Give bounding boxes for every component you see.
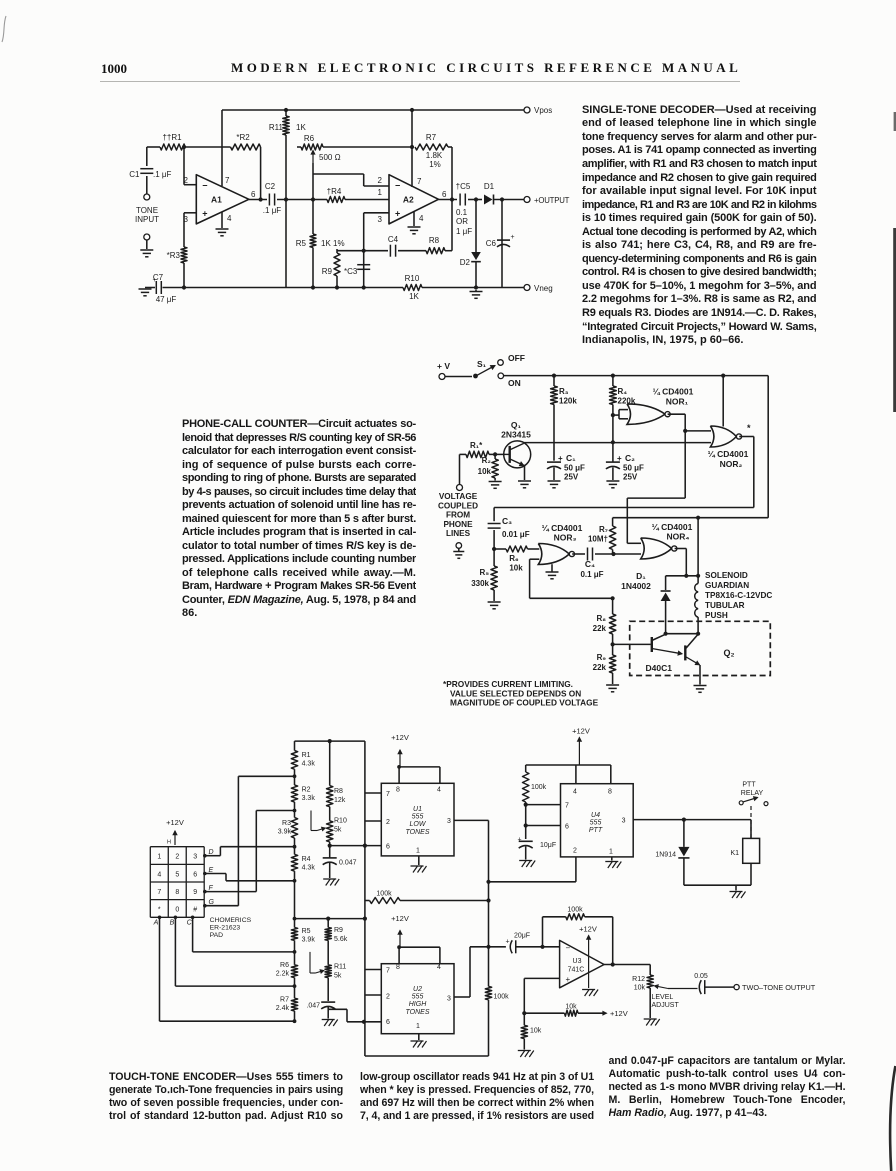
svg-text:R5: R5 xyxy=(296,239,307,248)
svg-text:+: + xyxy=(395,209,400,219)
svg-text:OFF: OFF xyxy=(508,353,525,363)
svg-text:R2: R2 xyxy=(302,787,311,794)
svg-text:MAGNITUDE OF COUPLED VOLTAGE: MAGNITUDE OF COUPLED VOLTAGE xyxy=(450,698,599,708)
svg-text:4.3k: 4.3k xyxy=(302,865,316,872)
svg-text:RELAY: RELAY xyxy=(741,790,764,797)
svg-text:GUARDIAN: GUARDIAN xyxy=(705,581,749,590)
svg-text:1.8K: 1.8K xyxy=(426,151,443,160)
svg-text:R3: R3 xyxy=(282,820,291,827)
svg-text:*R2: *R2 xyxy=(236,133,250,142)
svg-text:C₃: C₃ xyxy=(502,516,512,526)
svg-text:0.05: 0.05 xyxy=(694,973,708,980)
svg-text:R7: R7 xyxy=(426,133,437,142)
svg-text:2: 2 xyxy=(175,854,179,861)
svg-text:R1: R1 xyxy=(302,752,311,759)
svg-text:5k: 5k xyxy=(334,827,342,834)
svg-text:555: 555 xyxy=(412,814,424,821)
svg-text:22k: 22k xyxy=(593,663,607,672)
svg-text:R₈: R₈ xyxy=(596,614,606,623)
svg-text:A2: A2 xyxy=(403,194,414,204)
svg-text:R12: R12 xyxy=(632,976,645,983)
svg-text:R8: R8 xyxy=(334,788,343,795)
svg-text:C2: C2 xyxy=(265,182,276,191)
svg-text:10M†: 10M† xyxy=(588,535,608,544)
svg-text:††R1: ††R1 xyxy=(162,133,182,142)
svg-text:HIGH: HIGH xyxy=(409,1001,427,1008)
svg-text:+: + xyxy=(153,277,157,284)
svg-text:†C5: †C5 xyxy=(456,182,471,191)
svg-text:A1: A1 xyxy=(211,194,222,204)
svg-text:1N4002: 1N4002 xyxy=(621,581,651,591)
svg-text:U4: U4 xyxy=(591,812,600,819)
svg-text:3: 3 xyxy=(447,996,451,1003)
svg-text:D2: D2 xyxy=(460,258,471,267)
svg-text:.047: .047 xyxy=(306,1003,320,1010)
svg-text:Q₁: Q₁ xyxy=(511,420,522,430)
svg-text:2N3415: 2N3415 xyxy=(501,430,531,440)
svg-text:7: 7 xyxy=(157,889,161,896)
svg-text:C₄: C₄ xyxy=(585,559,595,569)
svg-text:R₄: R₄ xyxy=(618,387,628,396)
svg-text:U1: U1 xyxy=(413,806,422,813)
svg-text:R7: R7 xyxy=(280,997,289,1004)
svg-text:10k: 10k xyxy=(634,985,646,992)
svg-text:+12V: +12V xyxy=(391,733,409,742)
svg-text:LOW: LOW xyxy=(410,821,427,828)
svg-text:*: * xyxy=(747,423,751,433)
svg-text:U3: U3 xyxy=(573,958,582,965)
svg-text:−: − xyxy=(566,944,571,953)
svg-text:1: 1 xyxy=(416,1023,420,1030)
svg-text:2.2k: 2.2k xyxy=(276,971,290,978)
svg-text:NOR₄: NOR₄ xyxy=(667,532,690,542)
svg-text:Q₂: Q₂ xyxy=(724,648,735,658)
svg-text:+: + xyxy=(506,939,510,946)
svg-text:2.4k: 2.4k xyxy=(276,1005,290,1012)
svg-text:+: + xyxy=(202,209,207,219)
svg-text:4: 4 xyxy=(573,789,577,796)
svg-text:R5: R5 xyxy=(302,928,311,935)
svg-text:C₁: C₁ xyxy=(566,453,576,463)
svg-text:100k: 100k xyxy=(376,891,392,898)
svg-text:0.047: 0.047 xyxy=(339,860,357,867)
svg-text:100k: 100k xyxy=(567,907,583,914)
svg-text:1 μF: 1 μF xyxy=(456,227,472,236)
svg-text:.1 μF: .1 μF xyxy=(263,206,282,215)
svg-text:3: 3 xyxy=(622,818,626,825)
svg-text:741C: 741C xyxy=(568,967,585,974)
svg-text:D₁: D₁ xyxy=(636,571,646,581)
svg-text:+12V: +12V xyxy=(579,925,597,934)
svg-text:CHOMERICS: CHOMERICS xyxy=(210,917,252,924)
svg-text:555: 555 xyxy=(412,994,424,1001)
svg-text:R₂: R₂ xyxy=(482,456,492,465)
svg-text:R10: R10 xyxy=(405,274,420,283)
svg-text:R11: R11 xyxy=(269,123,284,132)
svg-text:R6: R6 xyxy=(304,134,315,143)
svg-text:6: 6 xyxy=(386,1019,390,1026)
svg-text:4: 4 xyxy=(419,214,424,223)
svg-text:R₉: R₉ xyxy=(597,653,607,662)
svg-text:50 μF: 50 μF xyxy=(564,464,585,473)
svg-text:R₆: R₆ xyxy=(509,554,519,563)
svg-text:PAD: PAD xyxy=(210,932,224,939)
svg-text:+: + xyxy=(617,454,622,463)
svg-text:R₁*: R₁* xyxy=(470,441,483,450)
svg-text:1K: 1K xyxy=(409,292,419,301)
svg-text:10μF: 10μF xyxy=(540,842,556,849)
svg-text:1: 1 xyxy=(609,849,613,856)
svg-text:†R4: †R4 xyxy=(327,187,342,196)
svg-text:+OUTPUT: +OUTPUT xyxy=(534,196,570,205)
svg-text:FROM: FROM xyxy=(446,511,470,520)
svg-text:R11: R11 xyxy=(334,964,346,971)
svg-text:25V: 25V xyxy=(623,473,638,482)
svg-text:5k: 5k xyxy=(334,973,342,980)
svg-text:PUSH: PUSH xyxy=(705,611,728,620)
svg-text:4.3k: 4.3k xyxy=(302,761,316,768)
svg-text:+ V: + V xyxy=(437,361,450,371)
svg-text:8: 8 xyxy=(175,889,179,896)
svg-text:+12V: +12V xyxy=(166,818,184,827)
svg-text:K1: K1 xyxy=(730,850,739,857)
svg-text:¼ CD4001: ¼ CD4001 xyxy=(652,522,693,532)
svg-text:R₇: R₇ xyxy=(599,525,608,534)
svg-text:−: − xyxy=(202,180,207,190)
svg-text:¼ CD4001: ¼ CD4001 xyxy=(708,449,749,459)
svg-text:4: 4 xyxy=(437,964,441,971)
svg-text:NOR₂: NOR₂ xyxy=(720,459,743,469)
svg-text:1%: 1% xyxy=(429,160,441,169)
svg-text:1K: 1K xyxy=(296,123,306,132)
svg-text:10k: 10k xyxy=(478,467,492,476)
svg-text:555: 555 xyxy=(590,820,602,827)
svg-text:330k: 330k xyxy=(471,579,489,588)
svg-text:−: − xyxy=(395,180,400,190)
svg-text:TONES: TONES xyxy=(406,1009,430,1016)
svg-text:R6: R6 xyxy=(280,962,289,969)
svg-text:20μF: 20μF xyxy=(514,933,530,940)
svg-text:S₁: S₁ xyxy=(477,359,487,369)
svg-text:3.9k: 3.9k xyxy=(302,937,316,944)
svg-text:R9: R9 xyxy=(334,927,343,934)
svg-text:7: 7 xyxy=(225,176,230,185)
svg-text:VOLTAGE: VOLTAGE xyxy=(439,492,478,501)
svg-text:NOR₁: NOR₁ xyxy=(666,397,689,407)
svg-text:2: 2 xyxy=(386,994,390,1001)
svg-text:R₅: R₅ xyxy=(480,568,490,577)
svg-text:1: 1 xyxy=(378,188,383,197)
svg-text:+12V: +12V xyxy=(391,914,409,923)
svg-text:0.01 μF: 0.01 μF xyxy=(502,530,530,539)
svg-text:4: 4 xyxy=(227,214,232,223)
svg-text:Vpos: Vpos xyxy=(534,106,552,115)
svg-text:47 μF: 47 μF xyxy=(156,295,177,304)
svg-text:7: 7 xyxy=(565,803,569,810)
svg-text:TWO–TONE OUTPUT: TWO–TONE OUTPUT xyxy=(742,983,816,992)
svg-text:OR: OR xyxy=(456,217,468,226)
svg-text:7: 7 xyxy=(386,968,390,975)
svg-text:ON: ON xyxy=(508,378,521,388)
svg-text:*: * xyxy=(158,907,161,914)
svg-text:C1: C1 xyxy=(129,170,140,179)
svg-text:2: 2 xyxy=(378,176,383,185)
svg-text:+: + xyxy=(518,837,522,844)
svg-text:PTT: PTT xyxy=(742,782,756,789)
svg-text:#: # xyxy=(193,907,197,914)
svg-text:R10: R10 xyxy=(334,818,347,825)
svg-text:TUBULAR: TUBULAR xyxy=(705,601,745,610)
svg-text:PTT: PTT xyxy=(589,827,603,834)
svg-text:COUPLED: COUPLED xyxy=(438,501,478,510)
svg-text:+: + xyxy=(566,975,571,984)
svg-text:ER-21623: ER-21623 xyxy=(210,925,241,932)
svg-text:LINES: LINES xyxy=(446,529,471,538)
svg-text:3: 3 xyxy=(193,854,197,861)
svg-text:1: 1 xyxy=(416,848,420,855)
svg-text:0.1: 0.1 xyxy=(456,208,468,217)
svg-text:+: + xyxy=(511,234,515,241)
svg-text:¼ CD4001: ¼ CD4001 xyxy=(653,387,694,397)
svg-text:Vneg: Vneg xyxy=(534,284,553,293)
svg-text:D40C1: D40C1 xyxy=(646,663,673,673)
svg-text:*C3: *C3 xyxy=(344,267,358,276)
svg-text:100k: 100k xyxy=(494,994,510,1001)
svg-text:5.6k: 5.6k xyxy=(334,936,348,943)
svg-text:6: 6 xyxy=(386,844,390,851)
svg-text:12k: 12k xyxy=(334,797,346,804)
svg-text:6: 6 xyxy=(565,824,569,831)
svg-text:+12V: +12V xyxy=(572,727,590,736)
svg-text:3: 3 xyxy=(447,818,451,825)
svg-text:U2: U2 xyxy=(413,986,422,993)
svg-text:R₃: R₃ xyxy=(559,387,569,396)
svg-text:C6: C6 xyxy=(486,239,497,248)
svg-text:R9: R9 xyxy=(322,267,333,276)
svg-text:NOR₃: NOR₃ xyxy=(554,533,577,543)
svg-text:A: A xyxy=(153,920,159,927)
svg-text:ADJUST: ADJUST xyxy=(652,1002,680,1009)
svg-text:INPUT: INPUT xyxy=(135,215,159,224)
svg-text:H: H xyxy=(167,840,171,846)
svg-text:SOLENOID: SOLENOID xyxy=(705,571,748,580)
svg-text:3.9k: 3.9k xyxy=(278,829,292,836)
svg-text:500 Ω: 500 Ω xyxy=(319,153,341,162)
svg-text:TP8X16-C-12VDC: TP8X16-C-12VDC xyxy=(705,591,772,600)
svg-text:2: 2 xyxy=(386,819,390,826)
svg-text:4: 4 xyxy=(157,871,161,878)
svg-text:120k: 120k xyxy=(559,397,577,406)
svg-text:6: 6 xyxy=(193,871,197,878)
svg-text:R8: R8 xyxy=(429,236,440,245)
svg-text:4: 4 xyxy=(437,787,441,794)
svg-text:R4: R4 xyxy=(302,856,311,863)
svg-text:25V: 25V xyxy=(564,473,579,482)
svg-text:10k: 10k xyxy=(565,1004,577,1011)
svg-text:8: 8 xyxy=(396,787,400,794)
svg-text:1N914: 1N914 xyxy=(655,852,676,859)
svg-text:6: 6 xyxy=(251,190,256,199)
svg-text:.1 μF: .1 μF xyxy=(153,170,172,179)
svg-text:8: 8 xyxy=(608,789,612,796)
svg-text:8: 8 xyxy=(396,964,400,971)
svg-text:+: + xyxy=(558,454,563,463)
svg-text:10k: 10k xyxy=(530,1028,542,1035)
svg-text:PHONE: PHONE xyxy=(443,520,473,529)
svg-text:B: B xyxy=(170,920,175,927)
svg-text:100k: 100k xyxy=(531,784,547,791)
svg-text:LEVEL: LEVEL xyxy=(652,994,674,1001)
svg-text:3: 3 xyxy=(378,215,383,224)
svg-text:7: 7 xyxy=(386,791,390,798)
svg-text:22k: 22k xyxy=(593,624,607,633)
svg-text:3.3k: 3.3k xyxy=(302,795,316,802)
svg-text:7: 7 xyxy=(417,177,422,186)
svg-text:1: 1 xyxy=(157,854,161,861)
svg-text:0: 0 xyxy=(175,907,179,914)
svg-text:2: 2 xyxy=(573,848,577,855)
svg-text:*R3: *R3 xyxy=(167,251,181,260)
svg-text:5: 5 xyxy=(175,871,179,878)
svg-text:D1: D1 xyxy=(484,182,495,191)
svg-text:1K 1%: 1K 1% xyxy=(321,239,345,248)
svg-text:0.1 μF: 0.1 μF xyxy=(580,570,603,579)
svg-text:6: 6 xyxy=(442,190,447,199)
svg-text:C₂: C₂ xyxy=(625,453,635,463)
svg-text:C4: C4 xyxy=(388,235,399,244)
svg-text:10k: 10k xyxy=(509,564,523,573)
svg-text:¼ CD4001: ¼ CD4001 xyxy=(542,523,583,533)
svg-text:TONES: TONES xyxy=(406,829,430,836)
svg-text:TONE: TONE xyxy=(136,206,158,215)
svg-text:+12V: +12V xyxy=(610,1009,628,1018)
svg-text:9: 9 xyxy=(193,889,197,896)
svg-text:C: C xyxy=(187,920,193,927)
svg-text:50 μF: 50 μF xyxy=(623,464,644,473)
